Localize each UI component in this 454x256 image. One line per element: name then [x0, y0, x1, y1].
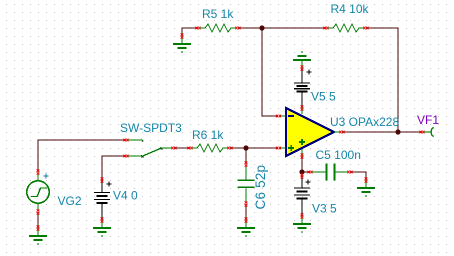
wire C5 right to ground [350, 172, 366, 180]
pin R6 left [188, 147, 193, 150]
ground below VG2 [29, 228, 47, 245]
pin V3 negative / ground [301, 214, 304, 219]
svg-text:V3 5: V3 5 [312, 202, 337, 216]
pin R4 right [364, 27, 369, 30]
voltage generator VG2 [27, 174, 49, 210]
ground below V3 [293, 216, 311, 233]
pin U3 inverting input [276, 115, 281, 118]
wire node B down to C6 [245, 148, 247, 164]
node A junction [259, 25, 264, 30]
output pin VF1 [424, 128, 434, 137]
svg-text:C5 100n: C5 100n [316, 148, 361, 162]
wire op-amp V- pin to node C [301, 156, 303, 176]
ground below V4 [93, 220, 111, 237]
ground below C5 [357, 180, 375, 197]
pin VG2 positive [37, 170, 40, 175]
wire VG2 to switch top throw [38, 140, 126, 172]
wire V4 to switch bottom throw [102, 156, 126, 180]
svg-text:V5 5: V5 5 [311, 90, 336, 104]
resistor R5 [200, 24, 236, 32]
ground top-left [173, 36, 191, 53]
pin R4 left [324, 27, 329, 30]
capacitor C6 [238, 166, 255, 202]
pin VG2 negative [37, 210, 40, 215]
wire switch pole to R6 left [174, 147, 190, 149]
pin ground C5 [365, 178, 368, 183]
pin V3 positive [301, 174, 304, 179]
ground above V5 (flipped) [293, 51, 311, 68]
pin SW-SPDT3 pole [172, 147, 177, 150]
pin SW-SPDT3 throw 2 [124, 155, 129, 158]
op-amp U3 [280, 108, 341, 156]
pin SW-SPDT3 throw 1 [124, 139, 129, 142]
pin C5 right [348, 171, 353, 174]
wire node A down to inverting input [262, 28, 278, 116]
svg-text:VG2: VG2 [58, 194, 82, 208]
pin ground C6 [245, 218, 248, 223]
pin R6 right [228, 147, 233, 150]
battery V3 [294, 176, 311, 216]
battery V5 [294, 68, 312, 108]
pin V4 positive [101, 178, 104, 183]
wire ground to R5 left [182, 28, 198, 36]
pin V4 negative / ground [101, 218, 104, 223]
pin U3 V- [301, 154, 304, 159]
pin ground top-left [181, 34, 184, 39]
svg-text:R5 1k: R5 1k [202, 7, 234, 21]
svg-text:V4 0: V4 0 [113, 189, 138, 203]
switch SW-SPDT3 [128, 139, 172, 158]
wire R6 right to non-inverting input [230, 147, 278, 149]
node C junction [299, 169, 304, 174]
pin C5 left [308, 171, 313, 174]
svg-text:VF1: VF1 [417, 113, 439, 127]
pin ground VG2 [37, 226, 40, 231]
pin U3 output [340, 131, 345, 134]
pin U3 non-inverting input [276, 147, 281, 150]
wire op-amp output to VF1 [342, 131, 422, 133]
wire R5 right to R4 left [238, 27, 326, 29]
node output junction [395, 129, 400, 134]
svg-text:SW-SPDT3: SW-SPDT3 [120, 121, 182, 135]
pin R5 left [196, 27, 201, 30]
node B junction [243, 145, 248, 150]
svg-text:U3 OPAx228: U3 OPAx228 [330, 115, 399, 129]
capacitor C5 [312, 164, 348, 181]
pin V5 negative / U3 V+ [301, 106, 304, 111]
wire VG2 bottom to ground [37, 212, 39, 228]
resistor R6 [192, 144, 228, 152]
pin V5 positive [301, 66, 304, 71]
wire node C to C5 left [302, 171, 310, 173]
svg-text:R6 1k: R6 1k [192, 128, 224, 142]
VG2 plus sign [44, 174, 49, 179]
resistor R4 [328, 24, 364, 32]
pin C6 bottom [245, 202, 248, 207]
svg-text:C6 52p: C6 52p [253, 165, 268, 210]
wire C6 bottom to ground [245, 204, 247, 220]
svg-text:R4 10k: R4 10k [331, 2, 370, 16]
ground below C6 [237, 220, 255, 237]
wire R4 right to output node [366, 28, 398, 132]
pin VF1 [420, 131, 425, 134]
pin C6 top [245, 162, 248, 167]
battery V4 [94, 180, 112, 220]
pin R5 right [236, 27, 241, 30]
